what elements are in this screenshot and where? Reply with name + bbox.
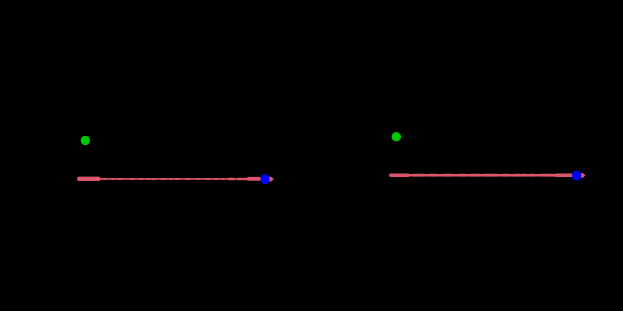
left trajectory thick end segment bbox=[249, 177, 260, 181]
right trajectory thick start segment bbox=[391, 173, 574, 177]
right trajectory bumps bbox=[413, 174, 553, 177]
right trajectory thick end segment bbox=[556, 174, 574, 178]
right end marker (blue dot) bbox=[572, 171, 581, 181]
left trajectory thick start segment bbox=[79, 177, 259, 182]
left trajectory arrow tip bbox=[269, 177, 274, 182]
left trajectory bumps bbox=[103, 178, 224, 180]
right start marker (green dot) bbox=[392, 132, 401, 141]
right trajectory base line bbox=[407, 174, 557, 177]
right trajectory arrow tip bbox=[581, 173, 585, 178]
left trajectory thin line bbox=[98, 178, 250, 180]
left start marker (green dot) bbox=[81, 136, 90, 145]
left end marker (blue dot) bbox=[260, 174, 269, 184]
